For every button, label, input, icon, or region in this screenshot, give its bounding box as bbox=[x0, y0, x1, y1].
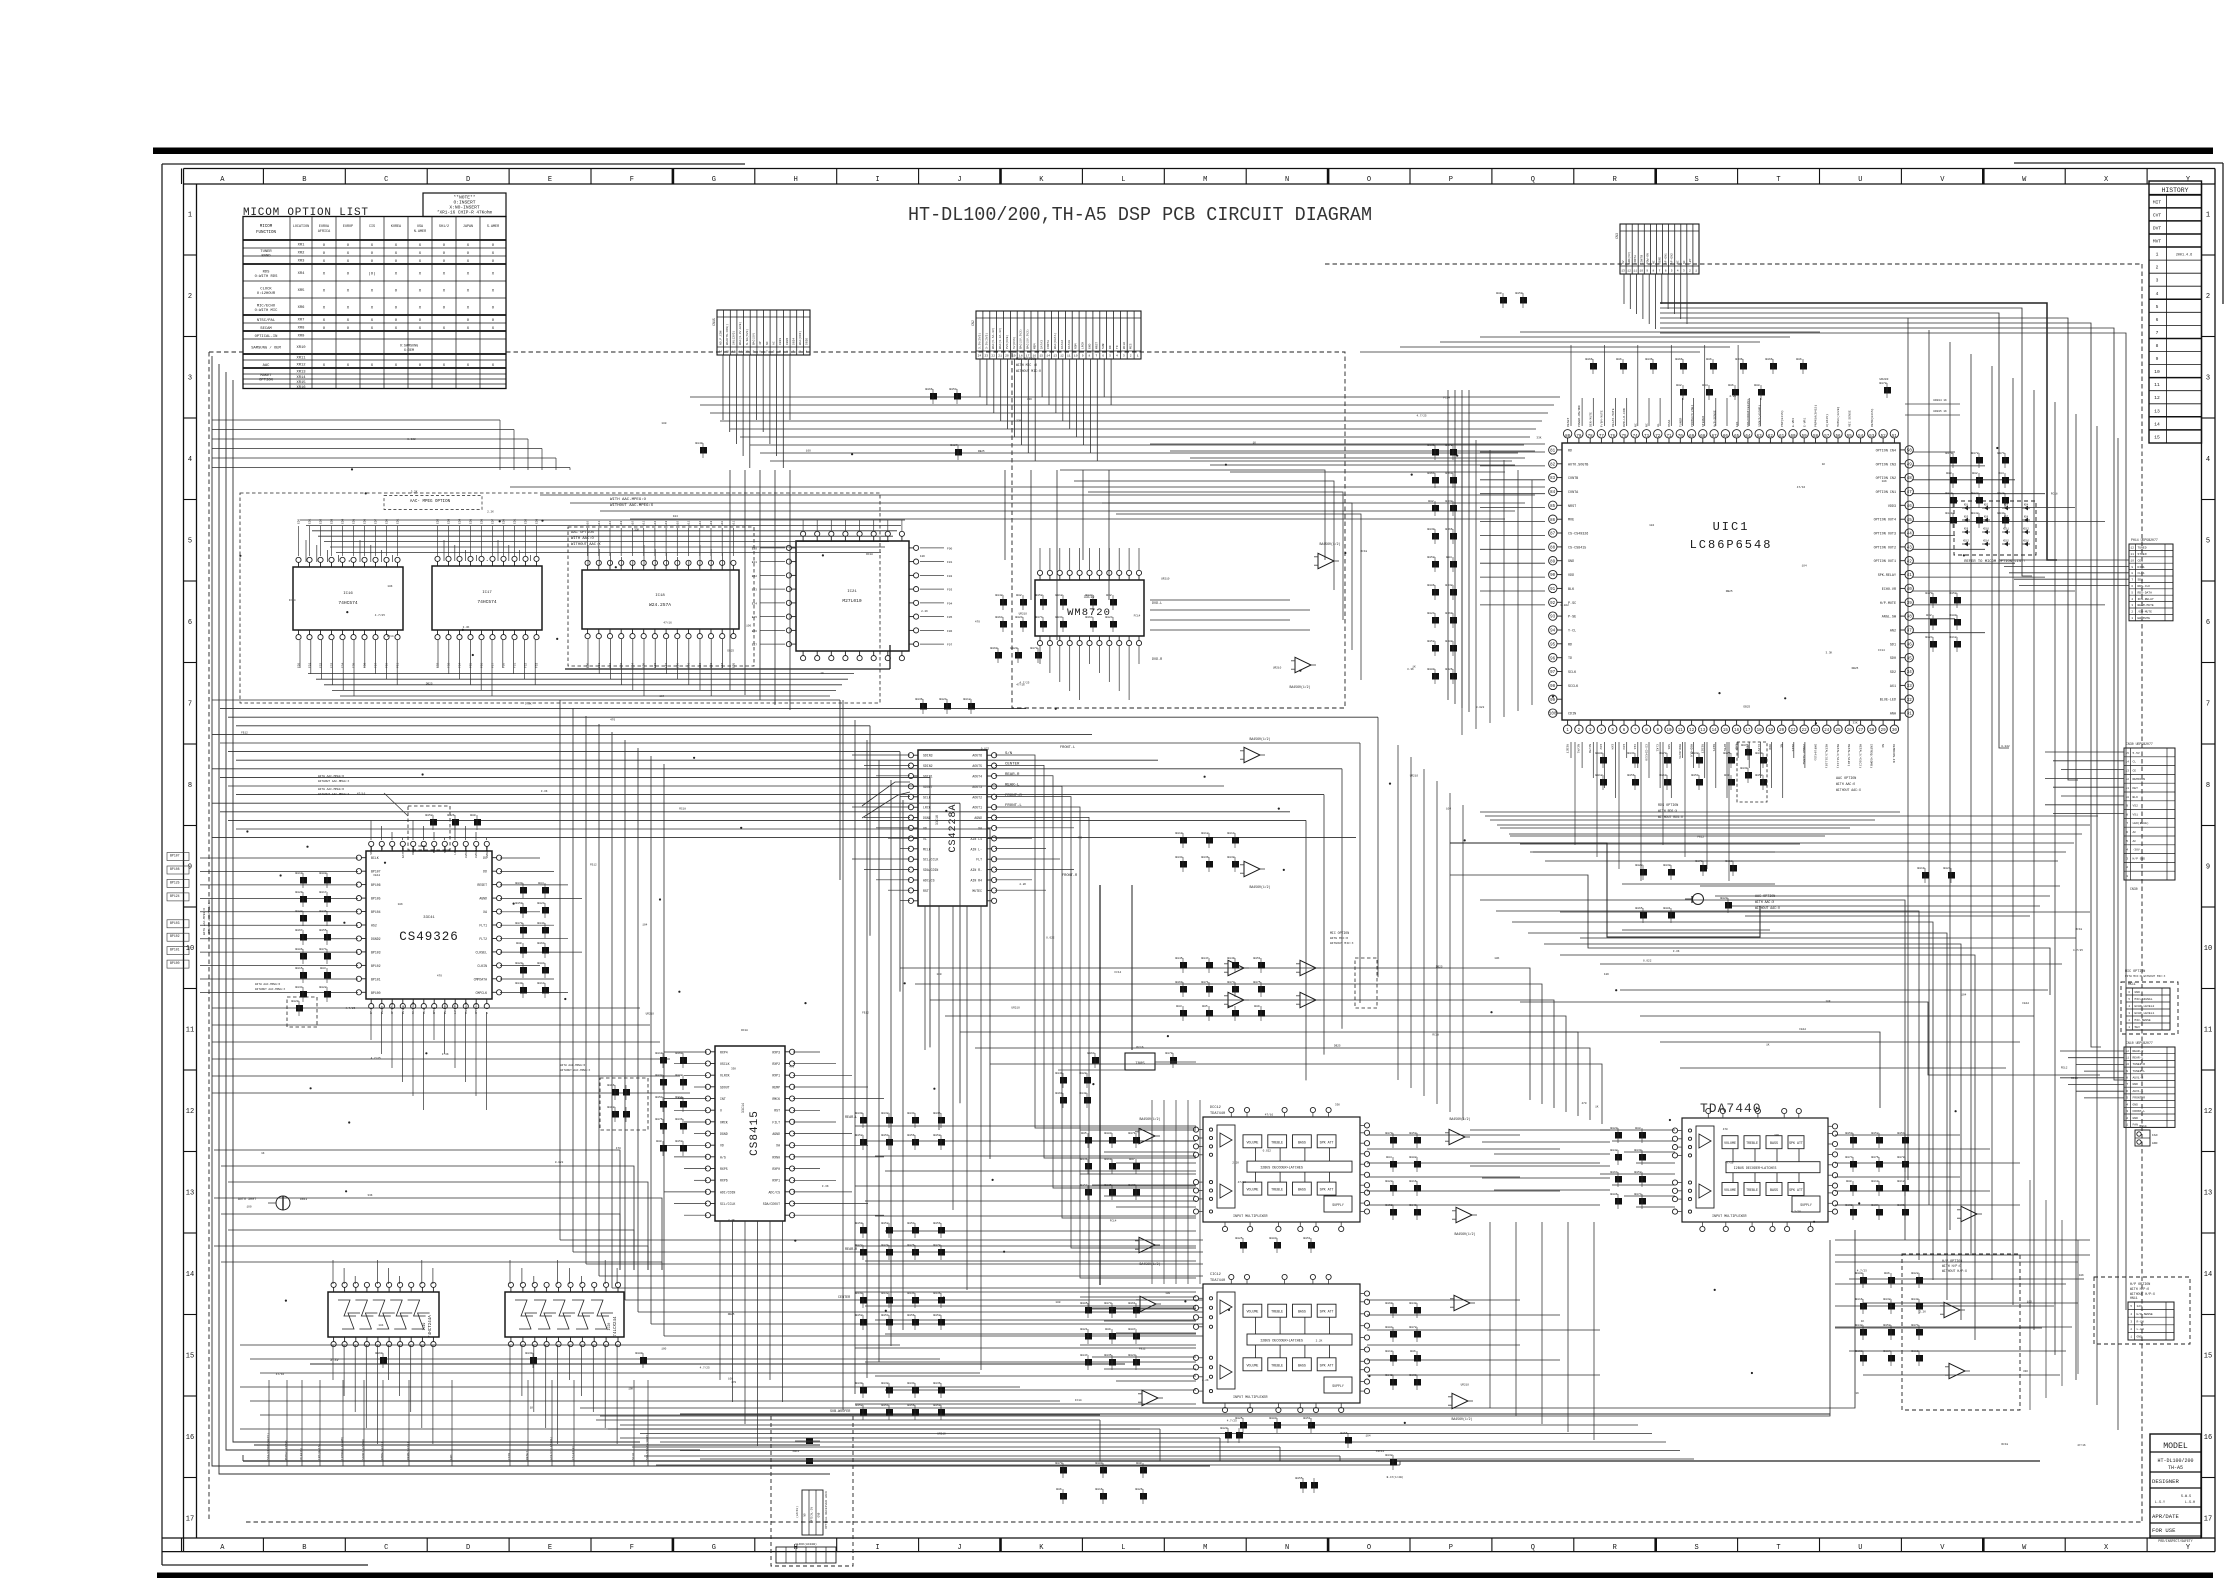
svg-text:B850: B850 bbox=[855, 1222, 862, 1225]
svg-text:B880: B880 bbox=[1427, 668, 1434, 671]
svg-text:B831: B831 bbox=[1080, 1158, 1087, 1161]
svg-text:BP104: BP104 bbox=[371, 910, 381, 914]
svg-text:ED6: ED6 bbox=[481, 519, 484, 524]
parts voltage reg detail bbox=[1092, 1057, 1099, 1064]
svg-text:RC18: RC18 bbox=[679, 808, 686, 811]
svg-text:TREBLE: TREBLE bbox=[1271, 1140, 1283, 1144]
svg-text:E22: E22 bbox=[752, 575, 757, 578]
svg-text:RESET: RESET bbox=[1701, 744, 1705, 753]
svg-text:CMPDATA: CMPDATA bbox=[474, 977, 487, 981]
svg-text:B858: B858 bbox=[675, 1140, 682, 1143]
svg-text:5N(12V2): 5N(12V2) bbox=[732, 330, 736, 345]
svg-text:2.2K: 2.2K bbox=[487, 510, 494, 513]
svg-text:FAN: FAN bbox=[2133, 1124, 2139, 1127]
svg-text:KD11: KD11 bbox=[2003, 528, 2009, 531]
svg-text:12: 12 bbox=[186, 1108, 194, 1116]
connector CN15 top-left bbox=[717, 310, 810, 355]
svg-text:AIN L-: AIN L- bbox=[971, 847, 983, 851]
svg-text:13: 13 bbox=[2154, 408, 2160, 414]
svg-text:3: 3 bbox=[1683, 270, 1685, 273]
svg-text:XR2: XR2 bbox=[298, 252, 306, 256]
svg-text:B834: B834 bbox=[907, 1112, 914, 1115]
svg-text:4.7/25: 4.7/25 bbox=[1417, 414, 1427, 418]
svg-text:47/16: 47/16 bbox=[1238, 1180, 1247, 1184]
svg-text:58: 58 bbox=[1813, 435, 1819, 439]
IC UIC1 LC86P6548 microcontroller bbox=[1562, 443, 1900, 720]
svg-text:BASS: BASS bbox=[1298, 1140, 1306, 1144]
svg-text:SDIN3: SDIN3 bbox=[923, 754, 933, 758]
svg-text:CMPCLK: CMPCLK bbox=[476, 991, 488, 995]
svg-text:B822: B822 bbox=[1635, 864, 1642, 867]
svg-text:B834: B834 bbox=[907, 1382, 914, 1385]
svg-text:B830: B830 bbox=[1755, 752, 1762, 755]
wire long bottom bus bbox=[243, 1460, 2040, 1462]
svg-text:29: 29 bbox=[1881, 729, 1887, 733]
svg-text:FC14: FC14 bbox=[1110, 1220, 1117, 1223]
svg-text:MIC OPTION: MIC OPTION bbox=[1330, 931, 1349, 935]
svg-text:99: 99 bbox=[1550, 699, 1556, 703]
svg-text:P-SC: P-SC bbox=[1568, 602, 1576, 606]
svg-text:RESET: RESET bbox=[477, 883, 487, 887]
svg-text:SAMSUNG / OEM: SAMSUNG / OEM bbox=[251, 346, 281, 351]
svg-text:B829: B829 bbox=[295, 891, 302, 894]
wire UIC right pin connections bbox=[1912, 451, 1955, 453]
svg-text:B836: B836 bbox=[915, 698, 922, 701]
svg-text:RC18: RC18 bbox=[2071, 1077, 2078, 1080]
svg-text:VOLUME: VOLUME bbox=[1724, 1188, 1736, 1192]
svg-text:AAC: AAC bbox=[263, 364, 271, 368]
IC CIC12 TDA7440 no.2 bbox=[1203, 1284, 1360, 1403]
svg-text:MVT: MVT bbox=[2153, 239, 2162, 245]
svg-text:WITH AAC:O: WITH AAC:O bbox=[1836, 782, 1855, 786]
svg-text:B854: B854 bbox=[881, 1134, 888, 1137]
svg-text:P: P bbox=[1449, 176, 1453, 184]
svg-text:B876: B876 bbox=[655, 1118, 662, 1121]
svg-text:B838: B838 bbox=[1445, 500, 1452, 503]
svg-text:52: 52 bbox=[1881, 435, 1887, 439]
svg-text:1K: 1K bbox=[1766, 1044, 1770, 1047]
svg-text:B819: B819 bbox=[1104, 1158, 1111, 1161]
svg-text:SD1: SD1 bbox=[1890, 643, 1896, 647]
svg-text:B850: B850 bbox=[515, 902, 522, 905]
svg-text:NC: NC bbox=[1881, 744, 1885, 748]
connector table PH14 right upper bbox=[2129, 544, 2173, 621]
svg-text:J: J bbox=[957, 1544, 961, 1552]
svg-text:DVD-LR-CON: DVD-LR-CON bbox=[1622, 408, 1626, 427]
svg-text:ED2: ED2 bbox=[525, 519, 528, 524]
svg-text:AOUT1: AOUT1 bbox=[972, 806, 982, 810]
svg-text:SD1: SD1 bbox=[1667, 744, 1671, 750]
svg-text:2.2K: 2.2K bbox=[1232, 1162, 1239, 1165]
svg-text:B851: B851 bbox=[1303, 1417, 1310, 1420]
svg-text:4.7/25: 4.7/25 bbox=[345, 1006, 355, 1010]
svg-text:7: 7 bbox=[188, 701, 192, 709]
svg-text:OPTION CN1: OPTION CN1 bbox=[1876, 491, 1896, 495]
parts below WM8720 bbox=[995, 652, 1002, 659]
wire verticals center x840-905 bbox=[842, 700, 844, 1410]
svg-text:B850: B850 bbox=[1515, 292, 1522, 295]
svg-text:B826: B826 bbox=[1445, 668, 1452, 671]
svg-text:BA4560(1/2): BA4560(1/2) bbox=[1249, 737, 1270, 741]
parts below connectors top bbox=[930, 393, 937, 400]
svg-text:0.022: 0.022 bbox=[2001, 745, 2010, 748]
svg-text:1K: 1K bbox=[1822, 463, 1826, 466]
svg-text:4.7/25: 4.7/25 bbox=[371, 1056, 381, 1060]
svg-text:RESET: RESET bbox=[1565, 744, 1569, 753]
svg-text:BP101: BP101 bbox=[170, 948, 180, 952]
svg-text:B828: B828 bbox=[1079, 1072, 1086, 1075]
svg-text:TD: TD bbox=[1568, 657, 1572, 661]
svg-text:RD: RD bbox=[1568, 449, 1572, 453]
svg-text:0.022: 0.022 bbox=[981, 748, 990, 751]
svg-text:20: 20 bbox=[1005, 355, 1009, 358]
svg-text:B881: B881 bbox=[1663, 907, 1670, 910]
parts below TDA1 bbox=[1240, 1242, 1247, 1249]
parts right of WM8720 filters bbox=[1000, 599, 1007, 606]
svg-text:OPTION OUT3: OPTION OUT3 bbox=[1874, 533, 1896, 537]
svg-text:P-SE: P-SE bbox=[1568, 616, 1576, 620]
svg-text:SD2: SD2 bbox=[1890, 671, 1896, 675]
svg-text:B816: B816 bbox=[1409, 1180, 1416, 1183]
svg-text:B88: B88 bbox=[1724, 774, 1730, 777]
connector CN2 top-middle bbox=[976, 311, 1141, 359]
svg-text:53: 53 bbox=[1869, 435, 1875, 439]
wire left-of-TDA network horizontals bbox=[855, 1125, 1196, 1127]
IC DCC12 TDA7440 no.1 bbox=[1203, 1117, 1360, 1222]
svg-text:B840: B840 bbox=[515, 982, 522, 985]
svg-text:UR210: UR210 bbox=[937, 1432, 946, 1435]
svg-text:B815: B815 bbox=[295, 967, 302, 970]
svg-text:AVDATA1: AVDATA1 bbox=[465, 846, 468, 858]
svg-text:S: S bbox=[1694, 1544, 1698, 1552]
svg-text:D809: D809 bbox=[786, 338, 789, 345]
svg-text:98: 98 bbox=[1550, 685, 1556, 689]
wire UIC top distribution bbox=[1520, 331, 1820, 333]
svg-text:E25: E25 bbox=[752, 616, 757, 619]
svg-text:WITH AAC:O: WITH AAC:O bbox=[571, 537, 595, 541]
svg-text:74LCX244: 74LCX244 bbox=[614, 1316, 618, 1337]
svg-text:BA4560(1/2): BA4560(1/2) bbox=[1139, 1117, 1160, 1121]
grid letters top and bottom with cell separators bbox=[181, 169, 183, 185]
svg-text:78: 78 bbox=[1588, 435, 1594, 439]
svg-text:5: 5 bbox=[2206, 538, 2210, 546]
svg-text:2.2K: 2.2K bbox=[728, 1219, 735, 1222]
wire nested mid-right staircase bbox=[900, 968, 1530, 1100]
svg-text:B866: B866 bbox=[925, 388, 932, 391]
svg-text:NC: NC bbox=[1633, 423, 1637, 427]
svg-text:TREBLE: TREBLE bbox=[1271, 1363, 1283, 1367]
wire CS4228A input fan diagonals bbox=[862, 782, 910, 806]
svg-text:3.3K: 3.3K bbox=[822, 1185, 829, 1188]
svg-text:AGND: AGND bbox=[974, 816, 982, 820]
svg-text:470: 470 bbox=[1723, 1128, 1728, 1131]
svg-text:16: 16 bbox=[186, 1434, 194, 1442]
svg-text:10K: 10K bbox=[920, 555, 925, 558]
svg-text:BCLK: BCLK bbox=[1123, 342, 1126, 349]
svg-text:94: 94 bbox=[1550, 630, 1556, 634]
svg-text:88: 88 bbox=[1550, 547, 1556, 551]
svg-text:BP102: BP102 bbox=[371, 964, 381, 968]
svg-text:TDA7440: TDA7440 bbox=[1210, 1279, 1225, 1283]
wire TDA2 left inputs bbox=[1080, 1296, 1196, 1298]
svg-text:5: 5 bbox=[1671, 270, 1673, 273]
svg-text:VSS4: VSS4 bbox=[1667, 419, 1671, 427]
svg-text:(JACK1): (JACK1) bbox=[795, 1506, 799, 1518]
svg-text:SDOUT: SDOUT bbox=[923, 785, 933, 789]
svg-text:RD: RD bbox=[1109, 345, 1112, 349]
svg-text:MOD-OUT1: MOD-OUT1 bbox=[1678, 744, 1682, 759]
svg-text:WITH MIC:O WITHOUT MIC:X: WITH MIC:O WITHOUT MIC:X bbox=[2125, 975, 2166, 978]
svg-text:-30V: -30V bbox=[2133, 849, 2140, 852]
svg-text:33K: 33K bbox=[1774, 1134, 1779, 1137]
corner mark bottom-left bbox=[162, 1564, 368, 1566]
svg-text:DB25: DB25 bbox=[1726, 590, 1733, 593]
svg-text:RC18: RC18 bbox=[1361, 550, 1368, 553]
svg-text:PNP45A(B415): PNP45A(B415) bbox=[1814, 405, 1818, 427]
svg-text:RXP1: RXP1 bbox=[772, 1074, 780, 1078]
svg-text:B855: B855 bbox=[1340, 1432, 1347, 1435]
svg-text:BACKTN.CON(): BACKTN.CON() bbox=[725, 323, 729, 345]
wire WM8720 risers and drops bbox=[1039, 548, 1041, 570]
svg-text:C: C bbox=[384, 176, 388, 184]
svg-text:CE: CE bbox=[2133, 769, 2137, 772]
svg-text:B818: B818 bbox=[1385, 1350, 1392, 1353]
svg-text:MRST: MRST bbox=[1095, 342, 1098, 349]
svg-text:CLKIN: CLKIN bbox=[477, 964, 487, 968]
svg-text:B84: B84 bbox=[538, 882, 544, 885]
svg-text:66: 66 bbox=[1723, 435, 1729, 439]
svg-text:SPK ATT: SPK ATT bbox=[1789, 1141, 1803, 1145]
svg-text:REMOCON-IN: REMOCON-IN bbox=[1892, 744, 1896, 763]
svg-text:23: 23 bbox=[1813, 729, 1819, 733]
svg-text:CONTB: CONTB bbox=[1568, 477, 1578, 481]
wire top-left lower bus bbox=[212, 419, 500, 421]
svg-text:100: 100 bbox=[1055, 1301, 1060, 1304]
svg-text:1K: 1K bbox=[1253, 442, 1257, 445]
svg-text:KATTBDO: KATTBDO bbox=[402, 846, 405, 858]
svg-text:MIT: MIT bbox=[2153, 199, 2162, 205]
svg-text:POW-ON: POW-ON bbox=[1646, 253, 1649, 264]
svg-text:B812: B812 bbox=[1897, 1180, 1904, 1183]
svg-text:B872: B872 bbox=[1971, 452, 1978, 455]
svg-text:MUTEC: MUTEC bbox=[972, 889, 982, 893]
svg-text:REAR-L: REAR-L bbox=[845, 1116, 857, 1120]
svg-text:GND: GND bbox=[2133, 1083, 2139, 1086]
wire vertical bundle x1400 mid bbox=[1397, 745, 1399, 1080]
svg-text:WITH AAC:X: WITH AAC:X bbox=[1755, 900, 1774, 904]
svg-text:BP103: BP103 bbox=[371, 950, 381, 954]
svg-text:C: C bbox=[384, 1544, 388, 1552]
svg-text:DCC12: DCC12 bbox=[1210, 1106, 1221, 1110]
svg-text:REF1: REF1 bbox=[1791, 744, 1795, 752]
parts cluster right far 1915 bbox=[1922, 872, 1929, 879]
svg-text:GND: GND bbox=[1088, 343, 1091, 349]
svg-text:6: 6 bbox=[2156, 317, 2159, 323]
svg-text:N: N bbox=[1285, 1544, 1289, 1552]
svg-text:B864: B864 bbox=[1087, 1052, 1094, 1055]
svg-text:97: 97 bbox=[1550, 671, 1556, 675]
svg-text:MCLK: MCLK bbox=[433, 846, 436, 853]
svg-text:WITHOUT AAC-MPEG:X: WITHOUT AAC-MPEG:X bbox=[318, 793, 349, 796]
svg-text:RDS OPTION: RDS OPTION bbox=[1658, 804, 1678, 808]
svg-text:AIN R4: AIN R4 bbox=[971, 879, 983, 883]
svg-text:H: H bbox=[794, 176, 798, 184]
svg-text:TUNER: TUNER bbox=[260, 250, 272, 254]
svg-text:B870: B870 bbox=[1165, 1052, 1172, 1055]
parts dashed box mid x600 bbox=[600, 1078, 648, 1130]
svg-text:FC14: FC14 bbox=[387, 635, 394, 638]
svg-text:EUROP: EUROP bbox=[343, 225, 353, 229]
svg-text:RC18: RC18 bbox=[866, 553, 873, 556]
svg-text:KD3: KD3 bbox=[2004, 504, 2009, 507]
connector table CN30 right bbox=[2124, 748, 2175, 880]
svg-text:B82: B82 bbox=[1106, 594, 1112, 597]
svg-text:TH-A5: TH-A5 bbox=[2168, 1465, 2183, 1471]
svg-text:47/16: 47/16 bbox=[357, 792, 366, 796]
svg-text:OPTION CN3: OPTION CN3 bbox=[1876, 463, 1896, 467]
svg-text:6: 6 bbox=[1665, 270, 1667, 273]
svg-text:NC/M1: NC/M1 bbox=[1577, 744, 1581, 753]
svg-text:B842: B842 bbox=[995, 594, 1002, 597]
svg-text:SDOUT(45DM8): SDOUT(45DM8) bbox=[361, 1438, 365, 1460]
optical receiver jack dashed box bbox=[771, 1414, 853, 1566]
svg-text:AFRICA: AFRICA bbox=[318, 230, 331, 234]
svg-text:B848: B848 bbox=[1911, 1298, 1918, 1301]
wire CS4228A bottom drops bbox=[924, 906, 926, 1050]
svg-text:NRST: NRST bbox=[1568, 505, 1576, 509]
svg-text:1K: 1K bbox=[261, 1152, 265, 1155]
svg-text:9: 9 bbox=[1082, 355, 1084, 358]
svg-text:3.3K: 3.3K bbox=[411, 491, 418, 494]
svg-text:12: 12 bbox=[2154, 395, 2160, 401]
svg-text:B810: B810 bbox=[1871, 1180, 1878, 1183]
svg-text:ED3: ED3 bbox=[448, 519, 451, 524]
wire WM8720 out to opamps bbox=[1150, 599, 1290, 601]
svg-text:14: 14 bbox=[186, 1271, 194, 1279]
svg-text:B878: B878 bbox=[1879, 382, 1886, 385]
svg-text:U: U bbox=[720, 1109, 722, 1113]
svg-text:U: U bbox=[1858, 1544, 1862, 1552]
svg-text:CONTA: CONTA bbox=[1568, 491, 1579, 495]
svg-text:AN2: AN2 bbox=[1890, 630, 1896, 634]
svg-text:N.9A(5V0): N.9A(5V0) bbox=[745, 329, 749, 345]
parts top right resistors bbox=[1500, 297, 1507, 304]
svg-text:BA4560(1/2): BA4560(1/2) bbox=[1319, 542, 1340, 546]
svg-text:AC: AC bbox=[773, 341, 776, 345]
svg-text:H/S: H/S bbox=[720, 1155, 726, 1159]
svg-text:56: 56 bbox=[1835, 435, 1841, 439]
svg-text:METAL2(S1L13): METAL2(S1L13) bbox=[1836, 744, 1840, 768]
parts rear-l rear-r opamp network bbox=[860, 1117, 867, 1124]
svg-text:G: G bbox=[712, 1544, 716, 1552]
svg-text:F33: F33 bbox=[536, 663, 539, 668]
svg-text:BAC(5V): BAC(5V) bbox=[752, 332, 756, 345]
svg-text:XA: XA bbox=[776, 1144, 780, 1148]
svg-text:B886: B886 bbox=[295, 948, 302, 951]
svg-text:89: 89 bbox=[1550, 560, 1556, 564]
svg-text:REAR-R: REAR-R bbox=[845, 1248, 857, 1252]
IC U1 CS49326 DSP bbox=[366, 851, 492, 999]
svg-text:104: 104 bbox=[1802, 564, 1807, 567]
svg-text:B887: B887 bbox=[1128, 1328, 1135, 1331]
svg-text:B820: B820 bbox=[1010, 647, 1017, 650]
svg-text:B84: B84 bbox=[1702, 384, 1708, 387]
svg-text:B80: B80 bbox=[470, 814, 476, 817]
svg-text:RDS: RDS bbox=[263, 270, 271, 274]
dashed option boundary lines bbox=[209, 351, 243, 353]
svg-text:E-VR2: E-VR2 bbox=[1791, 418, 1795, 427]
svg-text:BLK: BLK bbox=[1568, 588, 1575, 592]
connector table CN10 right bbox=[2124, 1047, 2175, 1127]
svg-text:B84: B84 bbox=[1998, 472, 2004, 475]
svg-text:470: 470 bbox=[789, 1065, 794, 1068]
parts H/P area bbox=[1860, 1277, 1867, 1284]
wire TDA right outputs bbox=[1367, 1134, 1520, 1136]
svg-text:CN30 UEP5B2077: CN30 UEP5B2077 bbox=[2126, 742, 2153, 746]
svg-text:JAPAN: JAPAN bbox=[463, 225, 473, 229]
svg-text:0.022: 0.022 bbox=[1560, 604, 1569, 607]
svg-text:SCLK: SCLK bbox=[1568, 671, 1577, 675]
svg-text:CONTA: CONTA bbox=[1047, 340, 1050, 349]
svg-text:B830: B830 bbox=[1634, 1149, 1641, 1152]
svg-text:XR7: XR7 bbox=[298, 319, 305, 323]
svg-text:B822: B822 bbox=[1911, 1272, 1918, 1275]
svg-text:100: 100 bbox=[661, 422, 666, 425]
svg-text:11: 11 bbox=[2131, 553, 2135, 556]
svg-text:BP103: BP103 bbox=[170, 921, 180, 925]
svg-text:BASS: BASS bbox=[1298, 1363, 1306, 1367]
svg-text:104: 104 bbox=[673, 515, 678, 518]
svg-text:AUTO.SOGTB: AUTO.SOGTB bbox=[1568, 463, 1588, 467]
svg-text:B885: B885 bbox=[1080, 1302, 1087, 1305]
svg-text:F33: F33 bbox=[331, 663, 334, 668]
svg-text:13: 13 bbox=[1053, 355, 1057, 358]
wire right-mid horizontal staircases bbox=[1560, 911, 2090, 913]
svg-text:B: B bbox=[302, 1544, 306, 1552]
wire CN15 long drops bbox=[729, 470, 731, 690]
svg-text:DATA0: DATA0 bbox=[1068, 340, 1071, 349]
svg-text:GND: GND bbox=[1568, 560, 1574, 564]
svg-text:B874: B874 bbox=[319, 948, 326, 951]
svg-text:TDA7440: TDA7440 bbox=[1700, 1101, 1762, 1116]
svg-text:ED2: ED2 bbox=[320, 519, 323, 524]
wire CS8415 right connections bbox=[793, 1051, 820, 1053]
svg-text:59: 59 bbox=[1802, 435, 1808, 439]
svg-text:OPTION OUT4: OPTION OUT4 bbox=[1874, 519, 1896, 523]
svg-text:LRCK: LRCK bbox=[1082, 342, 1085, 349]
svg-text:104: 104 bbox=[378, 1324, 383, 1327]
svg-text:UR210: UR210 bbox=[1161, 577, 1170, 580]
svg-text:2: 2 bbox=[188, 293, 192, 301]
svg-text:B880: B880 bbox=[1095, 1462, 1102, 1465]
svg-text:4.7/25: 4.7/25 bbox=[2073, 948, 2083, 952]
svg-text:B854: B854 bbox=[655, 1096, 662, 1099]
svg-text:FRONT-L: FRONT-L bbox=[1060, 746, 1075, 750]
svg-text:AOUT4: AOUT4 bbox=[972, 775, 982, 779]
svg-text:33K: 33K bbox=[1853, 722, 1858, 725]
svg-text:10K: 10K bbox=[628, 1388, 633, 1391]
svg-text:NC: NC bbox=[1645, 423, 1649, 427]
svg-text:B832: B832 bbox=[1385, 1454, 1392, 1457]
svg-text:B875: B875 bbox=[1253, 981, 1260, 984]
svg-text:B828: B828 bbox=[1385, 1180, 1392, 1183]
svg-text:B866: B866 bbox=[607, 1084, 614, 1087]
svg-text:B883: B883 bbox=[1269, 1237, 1276, 1240]
svg-text:OPTICAL RECEIVER JACK: OPTICAL RECEIVER JACK bbox=[825, 1491, 828, 1529]
svg-text:O:SAMSUNG: O:SAMSUNG bbox=[400, 345, 418, 349]
svg-text:47/16: 47/16 bbox=[663, 620, 672, 624]
svg-text:NC/M2: NC/M2 bbox=[1588, 744, 1592, 753]
